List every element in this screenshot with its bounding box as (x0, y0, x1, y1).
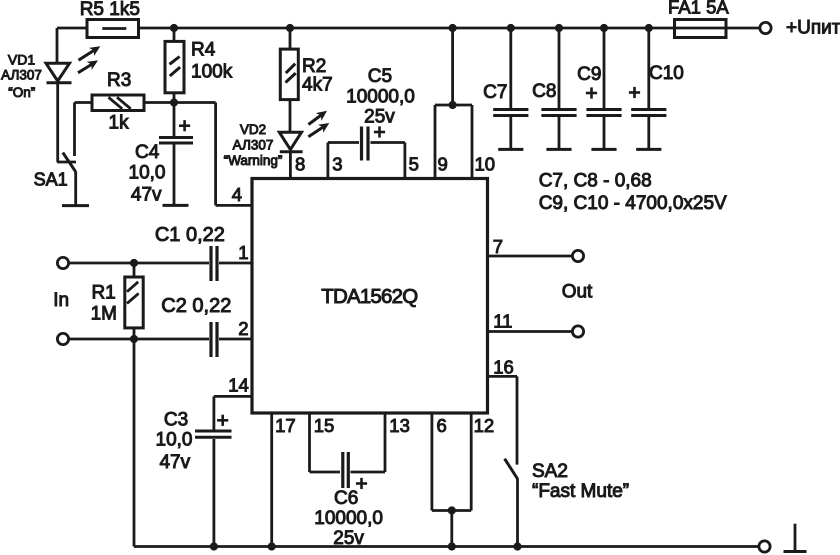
svg-text:R4: R4 (191, 40, 216, 61)
svg-text:C1 0,22: C1 0,22 (155, 224, 225, 246)
svg-text:In: In (53, 290, 69, 311)
svg-text:“Fast Mute”: “Fast Mute” (532, 481, 629, 502)
svg-text:“Warning”: “Warning” (224, 153, 283, 168)
svg-text:C9: C9 (577, 64, 601, 85)
svg-text:47v: 47v (131, 184, 162, 205)
svg-text:10000,0: 10000,0 (346, 87, 415, 108)
svg-text:VD1: VD1 (8, 52, 35, 68)
svg-text:C4: C4 (135, 142, 160, 163)
svg-text:R1: R1 (91, 282, 115, 303)
svg-text:C9, C10 - 4700,0x25V: C9, C10 - 4700,0x25V (539, 193, 727, 214)
svg-text:R3: R3 (107, 70, 131, 91)
svg-text:C7, C8 - 0,68: C7, C8 - 0,68 (539, 171, 652, 192)
svg-text:C10: C10 (649, 63, 684, 84)
svg-text:14: 14 (228, 375, 249, 396)
svg-text:Out: Out (562, 282, 593, 303)
svg-text:100k: 100k (191, 62, 233, 83)
svg-text:3: 3 (332, 153, 342, 174)
svg-text:8: 8 (295, 153, 305, 174)
svg-text:11: 11 (493, 311, 512, 332)
svg-text:C5: C5 (368, 66, 392, 87)
svg-text:17: 17 (275, 415, 296, 436)
svg-text:10000,0: 10000,0 (314, 508, 383, 529)
svg-text:SA1: SA1 (34, 170, 68, 190)
svg-text:5: 5 (409, 153, 419, 174)
svg-text:12: 12 (474, 415, 495, 436)
svg-text:АЛ307: АЛ307 (1, 68, 42, 83)
svg-text:15: 15 (314, 415, 335, 436)
svg-text:1M: 1M (91, 303, 117, 324)
svg-text:47v: 47v (159, 452, 190, 473)
svg-text:2: 2 (238, 318, 248, 339)
svg-text:6: 6 (437, 415, 447, 436)
svg-text:C6: C6 (334, 488, 358, 509)
svg-text:4: 4 (232, 184, 242, 205)
svg-text:АЛ307: АЛ307 (233, 138, 274, 153)
svg-text:1: 1 (238, 242, 248, 263)
svg-text:TDA1562Q: TDA1562Q (321, 285, 417, 308)
svg-text:9: 9 (438, 153, 448, 174)
svg-text:VD2: VD2 (240, 122, 266, 137)
svg-text:10,0: 10,0 (129, 163, 166, 184)
svg-text:4k7: 4k7 (302, 75, 333, 96)
svg-text:C3: C3 (164, 409, 188, 430)
svg-text:FA1 5A: FA1 5A (668, 0, 729, 18)
svg-text:1k: 1k (109, 113, 130, 134)
svg-text:7: 7 (493, 236, 503, 257)
svg-text:10,0: 10,0 (156, 430, 193, 451)
svg-text:R5 1k5: R5 1k5 (80, 0, 140, 20)
svg-text:SA2: SA2 (532, 461, 568, 482)
svg-text:10: 10 (475, 153, 496, 174)
svg-text:25v: 25v (364, 107, 395, 128)
svg-text:“On”: “On” (8, 85, 35, 100)
svg-text:13: 13 (389, 415, 410, 436)
svg-text:C2 0,22: C2 0,22 (161, 295, 231, 317)
svg-text:C8: C8 (532, 81, 556, 102)
svg-text:16: 16 (493, 357, 514, 378)
svg-text:+Uпит: +Uпит (786, 18, 840, 39)
svg-text:25v: 25v (333, 528, 364, 549)
svg-text:C7: C7 (483, 82, 507, 103)
